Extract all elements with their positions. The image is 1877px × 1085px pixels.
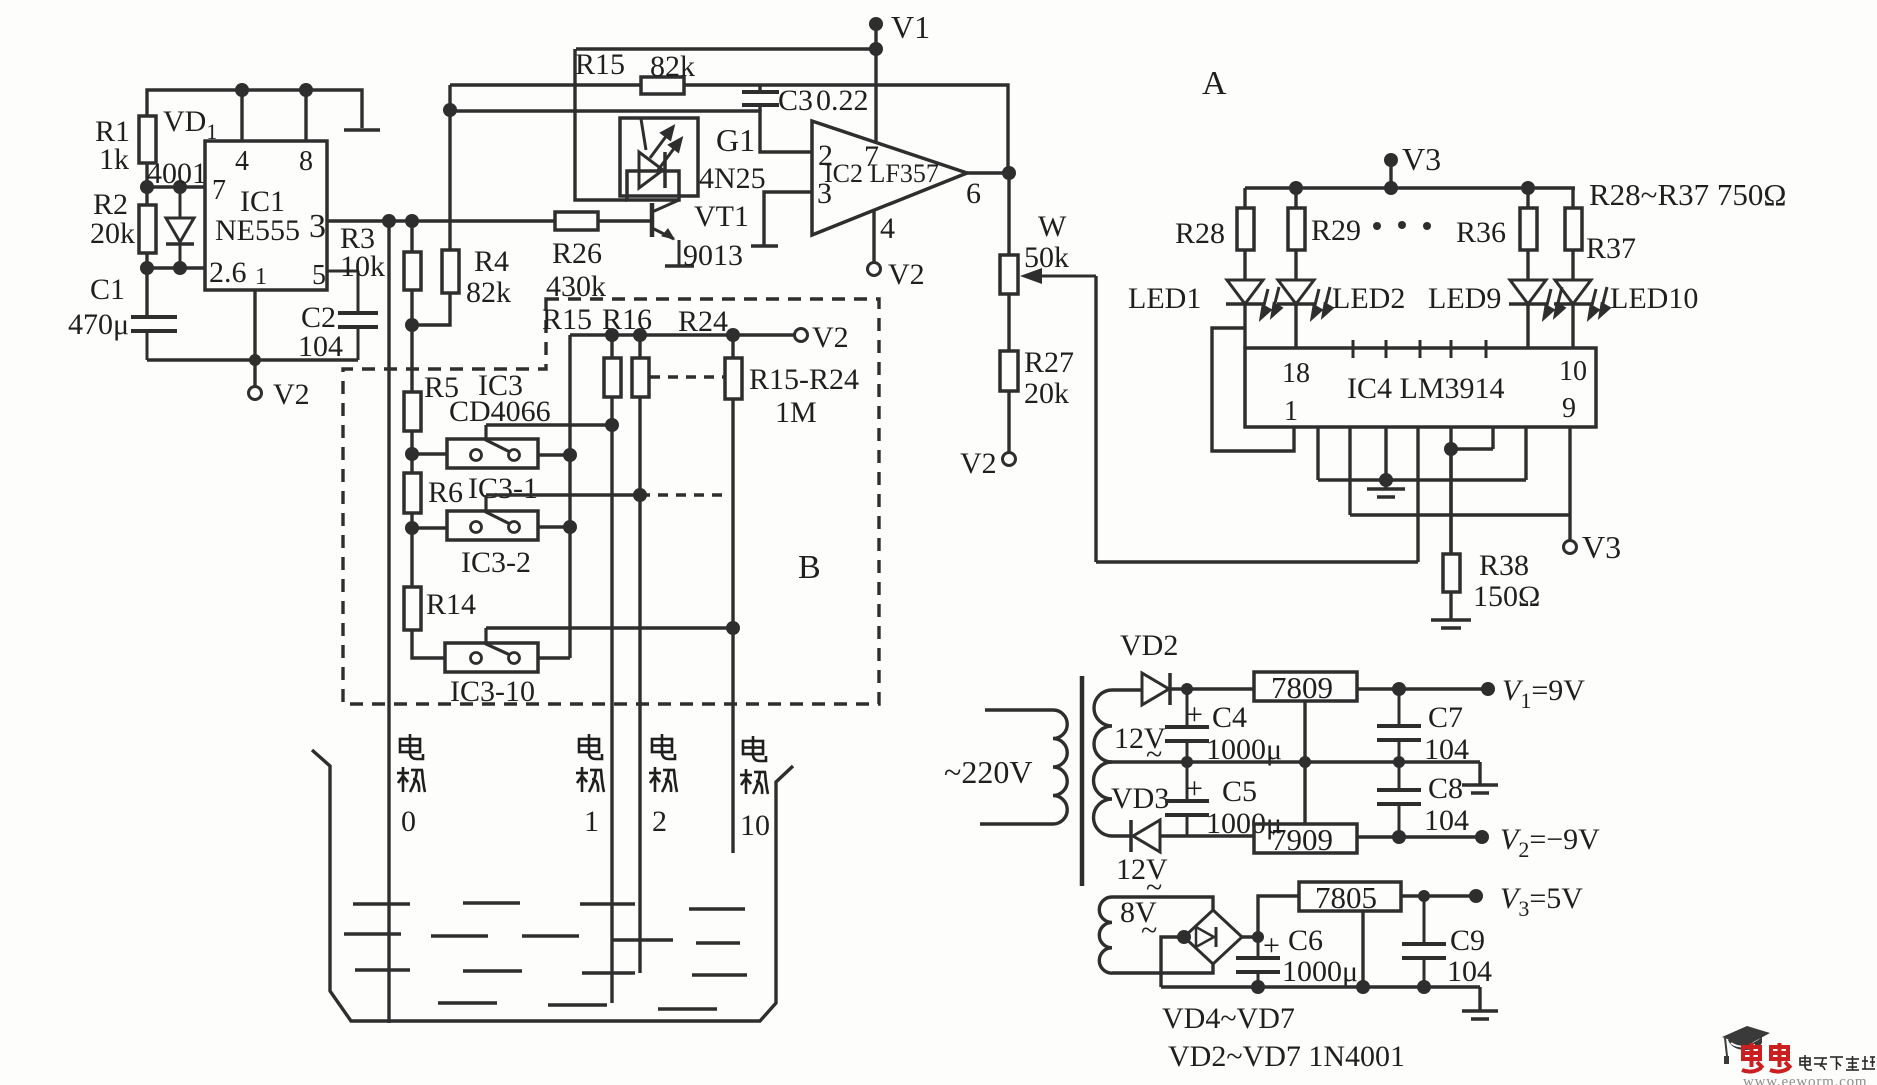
svg-text:C5: C5 <box>1222 775 1257 808</box>
wire R36 to LED <box>1526 250 1529 280</box>
wire R24 col upper <box>731 335 734 358</box>
svg-text:R27: R27 <box>1024 346 1074 379</box>
wire V3 stub <box>1389 160 1392 188</box>
svg-text:+: + <box>1263 929 1280 962</box>
node pin3 a <box>382 214 396 228</box>
wire 7909 gnd pin <box>1303 762 1306 824</box>
svg-text:W: W <box>1038 210 1067 243</box>
wire 8V bottom lead <box>1112 963 1213 973</box>
svg-text:www.eeworm.com: www.eeworm.com <box>1743 1074 1867 1085</box>
switch IC3-1 contacts <box>471 425 520 461</box>
junction rail C6 <box>1251 980 1265 994</box>
svg-text:IC4 LM3914: IC4 LM3914 <box>1347 372 1505 405</box>
label electrode 0 <box>400 734 423 759</box>
wire R27 to V2 <box>1007 391 1010 453</box>
wire pin4 <box>872 210 875 263</box>
terminal V3=5V <box>1469 889 1483 903</box>
resistor R14 <box>404 587 421 630</box>
switch IC3-2 box <box>447 511 538 540</box>
junction R15 top <box>605 328 619 342</box>
LED LED10 <box>1554 280 1592 304</box>
terminal V2 (pin4) <box>868 263 881 276</box>
svg-text:0.22: 0.22 <box>816 84 869 117</box>
svg-text:A: A <box>1202 65 1227 102</box>
pot wiper arrow <box>1020 268 1096 284</box>
label electrode 1 <box>579 734 602 759</box>
tank outline <box>312 750 793 1021</box>
wire IC4 pin a <box>1316 427 1319 480</box>
junction R15 ctl <box>605 418 619 432</box>
ground pin3 bar <box>751 244 778 248</box>
diode VD1 <box>166 187 194 268</box>
svg-text:9013: 9013 <box>683 239 743 272</box>
svg-text:R15: R15 <box>542 303 592 336</box>
wire R38 bottom <box>1449 592 1452 620</box>
resistor R38 <box>1443 554 1460 592</box>
wire rail gnd <box>1318 478 1526 481</box>
watermark chongchong red <box>1742 1043 1763 1072</box>
LED LED2 <box>1277 280 1315 304</box>
wire IC3-2 ctl <box>486 493 640 496</box>
junction pin2/6 left <box>140 261 154 275</box>
wire feedback top (through R15) <box>450 85 1008 173</box>
junction C9 top <box>1418 890 1430 902</box>
wire IC4 pin sig <box>1416 427 1419 562</box>
wire LED1 cathode <box>1243 304 1246 348</box>
wire IC4 pin b <box>1348 427 1351 515</box>
wire pin4 stub <box>240 90 243 141</box>
wire electrode 0 <box>387 221 390 1023</box>
LED LED1 arrows <box>1261 287 1281 318</box>
junction bridge right <box>1252 931 1264 943</box>
water level marks row 1 <box>353 903 745 909</box>
box B dashed border <box>343 299 879 704</box>
svg-text:20k: 20k <box>1024 377 1069 410</box>
ground R38 <box>1431 620 1471 628</box>
wire R28 top <box>1243 188 1246 208</box>
wire V2 bottom rail <box>147 358 358 361</box>
junction bus R29 <box>1289 181 1303 195</box>
wire bridge minus <box>1161 937 1184 987</box>
regulator 7909 <box>1254 824 1357 853</box>
svg-text:4: 4 <box>235 146 249 177</box>
resistor R24 (B) <box>725 358 742 399</box>
svg-text:V2: V2 <box>960 447 997 480</box>
wire to IC3-2 in <box>412 526 447 529</box>
svg-text:LED1: LED1 <box>1128 282 1201 315</box>
wire pin7 supply <box>874 49 877 143</box>
IC4 top pin ticks <box>1353 340 1486 358</box>
svg-text:~: ~ <box>1141 914 1157 947</box>
wire IC4 pin refout <box>1449 427 1452 554</box>
junction mid C7 <box>1393 756 1405 768</box>
svg-text:1: 1 <box>584 805 599 838</box>
svg-text:V3: V3 <box>1402 141 1441 177</box>
optocoupler 4N25 outer box <box>620 118 698 196</box>
junction rail gnd <box>1379 473 1393 487</box>
capacitor C1 <box>131 317 177 360</box>
resistor R16 (B) <box>632 358 649 397</box>
wire V3 bus <box>1245 186 1575 189</box>
svg-text:104: 104 <box>298 330 343 363</box>
svg-text:C9: C9 <box>1450 924 1485 957</box>
capacitor C4 <box>1165 689 1209 762</box>
potentiometer W 50k <box>1000 255 1018 294</box>
water level marks row 3 <box>355 970 747 975</box>
wire R3 bottom <box>410 290 413 325</box>
wire op-amp output <box>967 171 1009 174</box>
wire R5 bottom <box>410 431 413 454</box>
wire 7909 out <box>1357 835 1482 838</box>
transformer core <box>1080 676 1085 886</box>
wire pin1 to V2 <box>253 290 256 387</box>
svg-text:104: 104 <box>1447 955 1492 988</box>
svg-text:IC2 LF357: IC2 LF357 <box>824 159 939 188</box>
wire R6 bottom <box>410 513 413 528</box>
wire IC3-1 ctl <box>486 423 612 426</box>
svg-text:R26: R26 <box>552 237 602 270</box>
diode VD3 <box>1131 820 1160 852</box>
label electrode 2 <box>652 734 675 759</box>
diode VD2 <box>1142 673 1170 705</box>
wire IC1 pin3 output <box>327 219 555 222</box>
wire IC3-2 out <box>538 525 570 528</box>
svg-text:V1: V1 <box>891 9 930 45</box>
wire R36 top <box>1526 188 1529 208</box>
resistor R37 <box>1565 208 1582 250</box>
terminal V1=9V <box>1481 682 1495 696</box>
wire node G1 (C3 bottom / pin2) <box>450 111 812 152</box>
wire pin8 stub <box>304 90 307 141</box>
wire R24 col to electrode10 <box>731 399 734 853</box>
water level marks row 4 <box>438 1003 717 1009</box>
svg-text:1: 1 <box>1284 396 1298 427</box>
transformer primary winding <box>1053 710 1067 824</box>
svg-text:470μ: 470μ <box>68 308 129 341</box>
wire R4 bottom jog <box>412 293 450 325</box>
wire R26 to base <box>598 219 652 222</box>
wire R6 top <box>410 454 413 473</box>
svg-text:6: 6 <box>966 177 981 210</box>
dashed ctl to R24 <box>640 493 725 496</box>
capacitor C2 <box>327 271 378 360</box>
water level marks row 2 <box>344 934 740 943</box>
wire opto cathode return <box>575 49 627 200</box>
svg-text:2.6: 2.6 <box>209 256 247 289</box>
svg-text:G1: G1 <box>716 122 755 158</box>
junction mid C4 <box>1181 756 1193 768</box>
wire 7805 gnd pin <box>1361 911 1364 987</box>
svg-text:R28~R37 750Ω: R28~R37 750Ω <box>1589 177 1786 212</box>
svg-text:R24: R24 <box>678 305 728 338</box>
optocoupler light arrows <box>650 127 681 170</box>
resistor R5 <box>404 392 421 431</box>
wire output to W <box>1007 173 1010 255</box>
svg-text:50k: 50k <box>1024 241 1069 274</box>
wire LED9 cathode <box>1526 304 1529 348</box>
watermark cap <box>1722 1026 1770 1064</box>
capacitor C5 <box>1165 762 1209 836</box>
svg-text:VT1: VT1 <box>694 200 749 233</box>
svg-text:18: 18 <box>1282 358 1310 389</box>
junction R3/R4/R5 <box>405 318 419 332</box>
ground VT1 emitter <box>665 264 694 268</box>
svg-text:3: 3 <box>309 208 326 245</box>
resistor R4 <box>442 250 459 293</box>
switch IC3-10 box <box>445 643 538 672</box>
junction pin1/V2 rail <box>249 354 261 366</box>
resistor R29 <box>1288 208 1305 250</box>
op-amp IC2 LF357 <box>812 121 967 235</box>
svg-text:R28: R28 <box>1175 217 1225 250</box>
ground mid bars <box>1462 785 1498 793</box>
LED LED9 <box>1509 280 1547 304</box>
ground bottom bars <box>1462 1011 1498 1019</box>
svg-text:1: 1 <box>255 264 267 290</box>
node pin3 b <box>405 214 419 228</box>
LED LED2 arrows <box>1312 287 1332 318</box>
junction rail C9 <box>1417 980 1431 994</box>
svg-text:R37: R37 <box>1586 232 1636 265</box>
capacitor C9 <box>1402 896 1446 987</box>
junction mid 78xx <box>1299 756 1311 768</box>
op IC4 LM3914 box <box>1245 348 1596 427</box>
junction bus IC3-2 <box>563 520 577 534</box>
resistor R15 (82k feedback) <box>641 77 684 94</box>
svg-text:7: 7 <box>212 175 226 206</box>
svg-text:4001: 4001 <box>147 157 207 190</box>
svg-text:V2: V2 <box>273 378 310 411</box>
wire pin3 to ground ref <box>764 192 812 246</box>
wire rail ref <box>1451 447 1493 450</box>
resistor R27 <box>1000 351 1018 391</box>
capacitor C7 <box>1377 689 1421 762</box>
wire 8V top lead <box>1112 897 1213 911</box>
terminal V2 (B) <box>795 329 808 342</box>
terminal V2 (R27) <box>1003 453 1016 466</box>
svg-text:150Ω: 150Ω <box>1473 580 1540 613</box>
terminal V2 (IC1) <box>249 387 262 400</box>
wire sec bottom lead <box>1112 834 1131 837</box>
svg-text:104: 104 <box>1424 804 1469 837</box>
terminal V2=-9V <box>1475 830 1489 844</box>
svg-text:VD3: VD3 <box>1111 782 1169 815</box>
svg-text:VD4~VD7: VD4~VD7 <box>1162 1002 1295 1035</box>
svg-text:10: 10 <box>1559 356 1587 387</box>
svg-text:CD4066: CD4066 <box>449 395 551 428</box>
svg-text:10: 10 <box>740 809 770 842</box>
svg-text:+: + <box>1186 698 1203 731</box>
op IC1 NE555 box <box>205 141 327 290</box>
wire R29 top <box>1294 188 1297 208</box>
svg-text:C6: C6 <box>1288 924 1323 957</box>
junction pin8 top <box>299 83 313 97</box>
svg-text:R38: R38 <box>1479 549 1529 582</box>
svg-text:82k: 82k <box>650 50 695 83</box>
svg-text:B: B <box>798 549 821 586</box>
wire IC3-10 ctl <box>486 626 733 629</box>
svg-text:C1: C1 <box>90 273 125 306</box>
wire R3 top <box>410 221 413 252</box>
wire switch bus <box>568 335 571 658</box>
junction bus IC3-1 <box>563 448 577 462</box>
ground mid rail <box>1478 762 1481 784</box>
wire R14 to IC3-10 <box>412 630 445 658</box>
wire VD2 to 7809 <box>1170 687 1254 690</box>
svg-text:+: + <box>1186 772 1203 805</box>
wire IC1 top supply <box>147 90 362 128</box>
wire R37 top <box>1571 188 1574 208</box>
LED LED9 arrows <box>1544 287 1564 318</box>
svg-text:9: 9 <box>1562 393 1576 424</box>
wire R14 top <box>410 528 413 587</box>
svg-text:R6: R6 <box>428 476 463 509</box>
wire LED2 cathode pin18 <box>1294 304 1297 348</box>
wire mid rail <box>1112 760 1480 763</box>
svg-text:5: 5 <box>312 260 326 291</box>
junction VD1 bottom <box>173 261 187 275</box>
svg-text:2: 2 <box>652 805 667 838</box>
junction C8 bottom <box>1392 830 1406 844</box>
wire V2 row (B) <box>570 333 795 336</box>
junction R6/R14 <box>405 521 419 535</box>
svg-text:~: ~ <box>1146 738 1162 771</box>
wire IC4 pin gnd <box>1384 427 1387 480</box>
wire V1 stub <box>874 24 877 49</box>
transformer primary lead bottom <box>980 822 1053 825</box>
svg-text:4N25: 4N25 <box>699 162 766 195</box>
svg-text:82k: 82k <box>466 276 511 309</box>
svg-text:VD2: VD2 <box>1120 629 1178 662</box>
resistor R3 <box>404 252 421 290</box>
wire wiper to IC4 <box>1096 560 1418 563</box>
junction bridge left <box>1177 930 1191 944</box>
junction R1/R2 <box>140 180 154 194</box>
svg-text:R15: R15 <box>575 48 625 81</box>
svg-text:R29: R29 <box>1311 214 1361 247</box>
svg-text:IC3-2: IC3-2 <box>461 546 531 579</box>
optocoupler LED <box>639 119 665 188</box>
wire IC4 pin refadj <box>1491 427 1494 449</box>
junction bus V3 <box>1384 181 1398 195</box>
wire R15 col upper <box>610 335 613 358</box>
svg-text:R4: R4 <box>474 245 509 278</box>
junction C7 top <box>1392 682 1406 696</box>
wire chain top <box>410 325 413 392</box>
capacitor C6 <box>1236 937 1280 987</box>
svg-text:104: 104 <box>1424 733 1469 766</box>
svg-text:VD2~VD7 1N4001: VD2~VD7 1N4001 <box>1168 1040 1405 1073</box>
svg-text:0: 0 <box>401 805 416 838</box>
watermark site name <box>1800 1055 1875 1070</box>
wire R4 top <box>448 110 451 250</box>
svg-text:IC3-10: IC3-10 <box>450 675 535 708</box>
svg-text:IC3-1: IC3-1 <box>468 472 538 505</box>
svg-text:C3: C3 <box>778 84 813 117</box>
transistor VT1 9013 <box>652 197 679 266</box>
svg-text:V3: V3 <box>1582 529 1621 565</box>
junction rail ref <box>1444 442 1458 456</box>
svg-text:V2: V2 <box>888 258 925 291</box>
svg-text:C8: C8 <box>1428 772 1463 805</box>
wire IC4 pin 9 <box>1568 427 1571 541</box>
resistor R28 <box>1237 208 1254 250</box>
junction R5/R6 <box>405 447 419 461</box>
transformer primary lead top <box>985 708 1053 711</box>
wire pin2.6 <box>147 266 205 269</box>
svg-text:1k: 1k <box>99 143 129 176</box>
svg-text:~220V: ~220V <box>944 754 1032 790</box>
junction bus R36 <box>1521 181 1535 195</box>
svg-text:7909: 7909 <box>1271 822 1333 857</box>
wire IC3-1 out <box>538 453 570 456</box>
junction R16 top <box>633 328 647 342</box>
svg-text:R36: R36 <box>1456 216 1506 249</box>
wire R38 top <box>1449 449 1452 554</box>
junction R16 ctl <box>633 488 647 502</box>
wire R2 top <box>145 187 148 205</box>
wire 7809 gnd pin <box>1303 701 1306 762</box>
regulator 7805 <box>1299 882 1401 911</box>
transformer secondary 12V lower winding <box>1094 762 1113 836</box>
capacitor C3 <box>742 85 779 111</box>
bridge rectifier VD4~VD7 <box>1184 910 1242 964</box>
svg-text:20k: 20k <box>90 217 135 250</box>
junction rail 7805 <box>1356 980 1370 994</box>
transformer secondary 12V upper winding <box>1094 690 1112 762</box>
resistor R2 <box>139 205 156 253</box>
optocoupler inner box <box>627 171 679 200</box>
ground pin8 bar <box>344 128 380 132</box>
svg-text:LED10: LED10 <box>1610 282 1698 315</box>
wire V1 rail <box>576 47 876 50</box>
svg-text:LED9: LED9 <box>1428 282 1501 315</box>
junction R24 ctl <box>726 621 740 635</box>
wire to IC3-1 in <box>412 452 447 455</box>
svg-text:7809: 7809 <box>1271 670 1333 705</box>
junction C4 top <box>1181 683 1193 695</box>
svg-text:C7: C7 <box>1428 701 1463 734</box>
wire rail v3 <box>1350 513 1570 516</box>
wire W to R27 <box>1007 294 1010 351</box>
wire pin1 bypass <box>1212 328 1294 451</box>
wire bottom gnd rail <box>1161 985 1480 988</box>
junction R24 top <box>726 328 740 342</box>
wire R2 bottom <box>145 253 148 268</box>
wire R29 to LED <box>1294 250 1297 280</box>
switch IC3-10 contacts <box>471 628 520 664</box>
junction output node <box>1002 166 1016 180</box>
svg-text:R15-R24: R15-R24 <box>749 363 859 396</box>
wire R16 col upper <box>638 335 641 358</box>
wire LED10 cathode pin10 <box>1571 304 1574 348</box>
junction node G1 left <box>443 103 457 117</box>
wire sec top lead <box>1112 688 1142 691</box>
LED LED10 arrows <box>1589 287 1609 318</box>
switch IC3-1 box <box>447 439 538 468</box>
junction pin4 top <box>235 83 249 97</box>
resistor R15 (B) <box>604 358 621 397</box>
wire R16 col to electrode2 <box>638 397 641 973</box>
resistor R1 <box>139 116 156 163</box>
dashed resistors R17-R23 <box>650 375 725 378</box>
wire 7805 out <box>1401 894 1476 897</box>
resistor R26 <box>555 212 598 230</box>
wire IC3-10 out <box>538 656 570 659</box>
junction VD1 top <box>173 180 187 194</box>
ellipsis dots <box>1373 221 1431 230</box>
svg-text:1000μ: 1000μ <box>1282 955 1358 988</box>
